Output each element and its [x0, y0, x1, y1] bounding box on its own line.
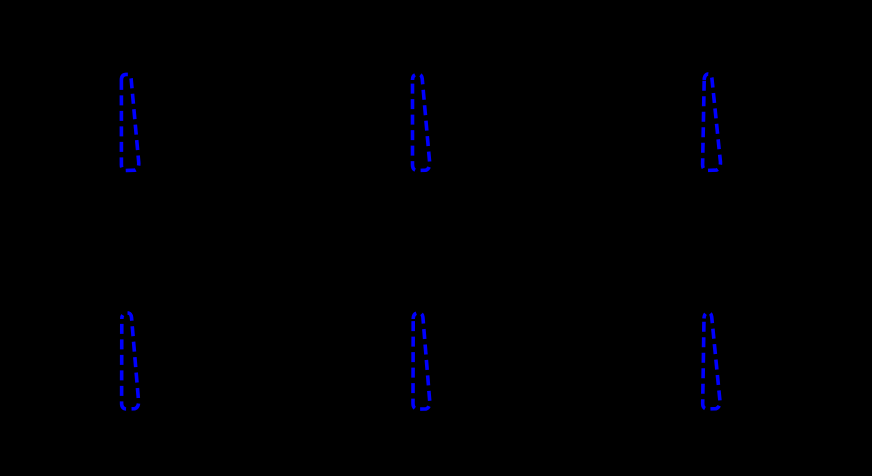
dashed flux-tube outline 5 (bottom-middle)	[413, 313, 430, 409]
dashed flux-tube outline 2 (top-middle)	[413, 74, 430, 170]
dashed flux-tube outline 1 (top-left)	[121, 74, 138, 170]
dashed flux-tube outline 3 (top-right)	[703, 74, 721, 170]
dashed flux-tube outline 6 (bottom-right)	[703, 313, 720, 409]
dashed flux-tube outline 4 (bottom-left)	[122, 313, 139, 409]
